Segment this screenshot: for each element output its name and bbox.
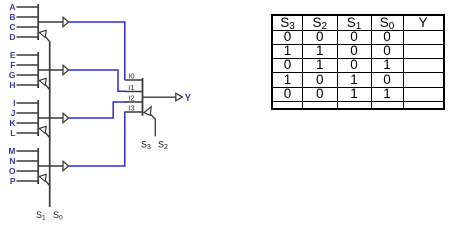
svg-text:Y: Y — [185, 93, 192, 104]
svg-text:F: F — [10, 60, 15, 70]
svg-text:I0: I0 — [128, 72, 134, 81]
svg-text:I3: I3 — [128, 104, 134, 113]
svg-text:M: M — [8, 146, 15, 156]
svg-text:E: E — [10, 50, 16, 60]
svg-text:S2: S2 — [158, 140, 168, 152]
svg-text:K: K — [9, 118, 16, 128]
svg-text:S3: S3 — [141, 140, 151, 152]
svg-text:D: D — [9, 32, 15, 42]
svg-text:C: C — [9, 22, 15, 32]
svg-text:H: H — [9, 80, 15, 90]
svg-text:A: A — [9, 2, 15, 12]
svg-text:O: O — [9, 166, 16, 176]
svg-text:G: G — [9, 70, 16, 80]
svg-text:P: P — [10, 176, 16, 186]
svg-text:N: N — [9, 156, 15, 166]
svg-text:S1: S1 — [36, 210, 46, 222]
svg-text:S0: S0 — [53, 210, 63, 222]
svg-text:I2: I2 — [128, 94, 134, 103]
svg-text:J: J — [11, 108, 16, 118]
svg-text:B: B — [9, 12, 15, 22]
svg-text:L: L — [10, 128, 15, 138]
svg-text:I: I — [13, 98, 15, 108]
svg-text:I1: I1 — [128, 83, 134, 92]
